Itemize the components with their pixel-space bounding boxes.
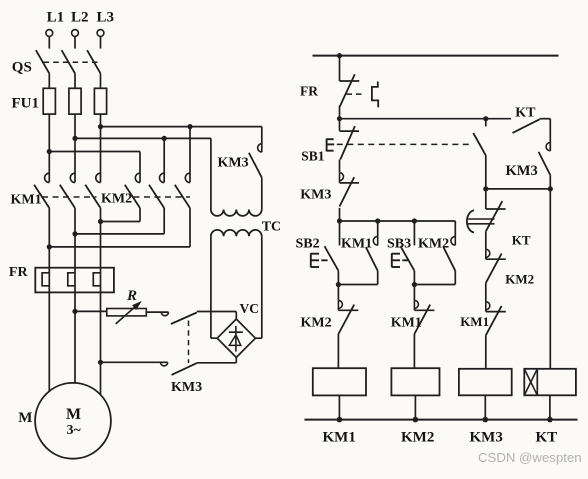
svg-text:KM2: KM2 xyxy=(101,192,132,207)
svg-text:KT: KT xyxy=(536,430,558,446)
svg-text:CSDN @wespten: CSDN @wespten xyxy=(478,450,582,465)
svg-text:KM1: KM1 xyxy=(460,314,489,329)
svg-text:KM1: KM1 xyxy=(11,193,42,208)
svg-text:KM2: KM2 xyxy=(401,430,434,446)
svg-text:KT: KT xyxy=(515,106,536,121)
svg-text:KM1: KM1 xyxy=(391,316,422,331)
svg-text:VC: VC xyxy=(240,301,260,316)
svg-text:KM2: KM2 xyxy=(418,236,449,251)
svg-text:M: M xyxy=(66,406,81,423)
svg-text:KM3: KM3 xyxy=(300,187,331,202)
svg-text:SB1: SB1 xyxy=(301,148,325,163)
svg-text:R: R xyxy=(126,288,137,304)
svg-text:L2: L2 xyxy=(71,10,89,26)
svg-text:FR: FR xyxy=(9,265,29,280)
svg-text:SB3: SB3 xyxy=(387,236,411,251)
svg-text:KM3: KM3 xyxy=(218,155,249,170)
svg-text:M: M xyxy=(18,410,32,426)
svg-text:TC: TC xyxy=(262,220,281,235)
svg-text:FU1: FU1 xyxy=(12,96,40,112)
svg-text:L1: L1 xyxy=(47,10,65,26)
svg-text:KM2: KM2 xyxy=(505,271,534,286)
svg-text:KM1: KM1 xyxy=(323,430,356,446)
svg-text:QS: QS xyxy=(12,60,32,76)
svg-text:KM1: KM1 xyxy=(341,236,372,251)
svg-text:KM3: KM3 xyxy=(470,430,503,446)
svg-text:L3: L3 xyxy=(97,10,115,26)
svg-text:3~: 3~ xyxy=(67,423,82,438)
svg-text:SB2: SB2 xyxy=(296,236,320,251)
svg-text:KT: KT xyxy=(512,232,531,247)
svg-text:FR: FR xyxy=(300,83,318,98)
svg-text:KM3: KM3 xyxy=(171,380,202,395)
svg-text:KM2: KM2 xyxy=(301,316,332,331)
svg-text:KM3: KM3 xyxy=(506,163,538,179)
